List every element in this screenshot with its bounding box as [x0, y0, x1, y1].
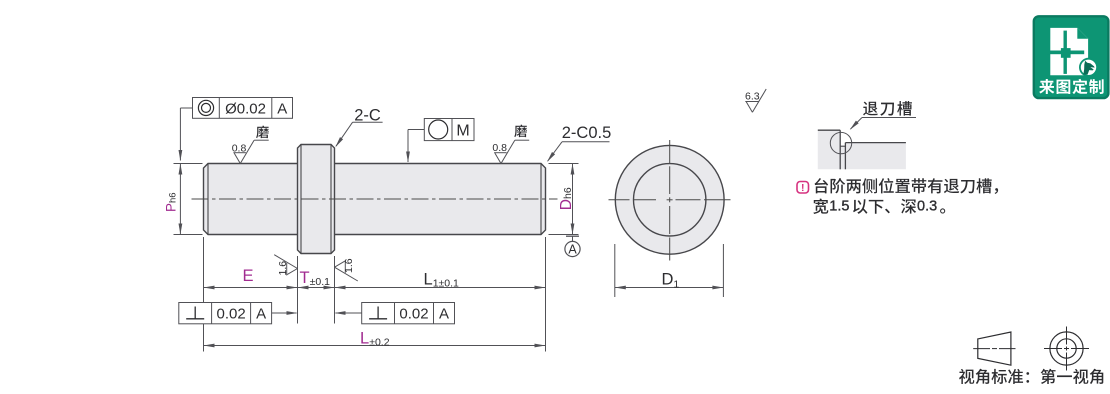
svg-text:0.8: 0.8 [232, 143, 247, 155]
svg-text:Ø0.02: Ø0.02 [225, 101, 266, 118]
svg-text:A: A [256, 305, 266, 322]
svg-text:!: ! [801, 182, 805, 194]
svg-text:0.3: 0.3 [917, 198, 937, 214]
svg-text:A: A [277, 101, 287, 118]
svg-text:0.8: 0.8 [492, 142, 507, 154]
svg-text:M: M [456, 122, 469, 139]
svg-text:6.3: 6.3 [745, 91, 760, 103]
svg-text:0.02: 0.02 [399, 305, 428, 322]
svg-text:1.5: 1.5 [829, 198, 849, 214]
svg-text:A: A [439, 305, 449, 322]
svg-text:E: E [242, 267, 253, 285]
svg-text:2-C0.5: 2-C0.5 [562, 124, 612, 142]
svg-text:A: A [568, 243, 577, 257]
svg-text:0.02: 0.02 [216, 305, 245, 322]
svg-text:2-C: 2-C [354, 106, 381, 124]
svg-text:1.6: 1.6 [277, 261, 289, 276]
svg-text:1.6: 1.6 [343, 258, 355, 273]
